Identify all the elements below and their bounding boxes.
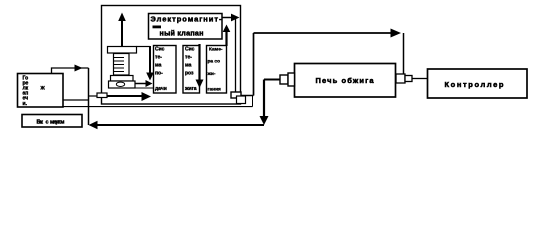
right port on enclosure edge [231, 92, 241, 98]
wire along bottom from left box to riser [62, 106, 253, 108]
arrowhead on left box wire [75, 65, 83, 72]
wire from right port to top route riser [241, 95, 254, 97]
arrow up from column box 3 corner [225, 31, 227, 46]
arrow up from valve to label box [121, 20, 123, 46]
wire down from arrow tip to right port [235, 18, 237, 93]
kiln right stub outer [405, 76, 412, 82]
svg-text:гания: гания [208, 88, 222, 93]
valve bottom flange [109, 81, 136, 88]
wire from valve top plate to down-arrow [137, 46, 151, 48]
svg-text:ма: ма [155, 63, 162, 69]
svg-text:Контроллер: Контроллер [445, 80, 504, 89]
label text dash [153, 26, 162, 29]
left box (burner) [18, 74, 64, 108]
svg-text:мазутом: мазутом [50, 120, 65, 126]
controller box [428, 69, 528, 98]
feedback left arrowhead [89, 121, 98, 129]
svg-text:Сис: Сис [155, 47, 165, 53]
column box 2 [183, 46, 200, 94]
kiln box "Печь обжига" [295, 64, 396, 98]
down arrow beside column box 1 [149, 46, 151, 73]
svg-text:Бак: Бак [37, 120, 44, 126]
valve coil body [114, 54, 130, 76]
arrow right from label box [222, 17, 232, 19]
arrowhead into column box 1 [142, 92, 152, 101]
wire down to kiln right stub [403, 33, 405, 75]
kiln right stub inner [396, 74, 405, 83]
svg-text:Сис: Сис [185, 47, 195, 53]
hook box below right port [237, 96, 246, 104]
svg-text:Электромагнит-: Электромагнит- [151, 15, 223, 24]
column box 3 [207, 46, 227, 94]
down arrow between column boxes 2 and 3 [198, 44, 200, 80]
svg-text:с: с [46, 120, 49, 126]
svg-text:жига: жига [184, 86, 197, 92]
kiln left stub outer [288, 73, 295, 86]
svg-text:Печь обжига: Печь обжига [316, 76, 375, 85]
svg-text:жи-: жи- [207, 72, 216, 77]
top route horizontal wire [254, 32, 399, 34]
column box 3 text [207, 47, 223, 93]
valve flange ellipse [116, 82, 124, 86]
wire from stub to controller [412, 78, 427, 80]
wire from left box right edge to riser [64, 99, 89, 101]
svg-text:ра со: ра со [208, 60, 221, 65]
svg-text:дачи: дачи [155, 86, 167, 92]
coil winding lines [114, 58, 124, 72]
valve lower plate [111, 76, 134, 82]
left port on enclosure edge [97, 93, 107, 98]
feedback down arrowhead [260, 116, 269, 125]
column box 1 [154, 46, 177, 94]
svg-text:те-: те- [155, 55, 162, 61]
wire from flange bottom edge to column box 1 [135, 87, 153, 89]
svg-text:роз: роз [185, 71, 194, 77]
kiln left stub inner [280, 75, 288, 84]
valve top plate [108, 47, 137, 54]
svg-text:ж: ж [40, 86, 46, 92]
left box vertical text [23, 76, 29, 107]
bottom-left box text [37, 120, 65, 126]
column box 1 text [155, 47, 167, 93]
feedback riser down [263, 80, 265, 118]
column box 2 text [184, 47, 197, 93]
svg-text:те-: те- [185, 55, 192, 61]
bottom-left box (fuel tank) [22, 115, 82, 128]
feedback bottom wire [91, 124, 264, 126]
enclosure (valve assembly outer box) [102, 6, 241, 105]
wire from left box top [52, 68, 89, 74]
top route riser [253, 33, 255, 96]
svg-text:ный клапан: ный клапан [160, 29, 204, 38]
top route arrowhead [391, 29, 402, 38]
svg-text:по-: по- [155, 71, 163, 77]
link stub to under-line [252, 96, 254, 107]
feedback wire from kiln stub going left [264, 79, 280, 81]
left riser wire [88, 68, 90, 125]
wire through left port into enclosure [98, 95, 142, 97]
wire from riser to left port [89, 95, 99, 97]
svg-text:и.: и. [23, 101, 28, 107]
svg-text:Каме-: Каме- [209, 47, 223, 53]
arrow from valve flange into column box 1 [135, 83, 147, 85]
svg-text:ма: ма [185, 63, 192, 69]
label box "Электромагнитный клапан" [149, 14, 223, 40]
